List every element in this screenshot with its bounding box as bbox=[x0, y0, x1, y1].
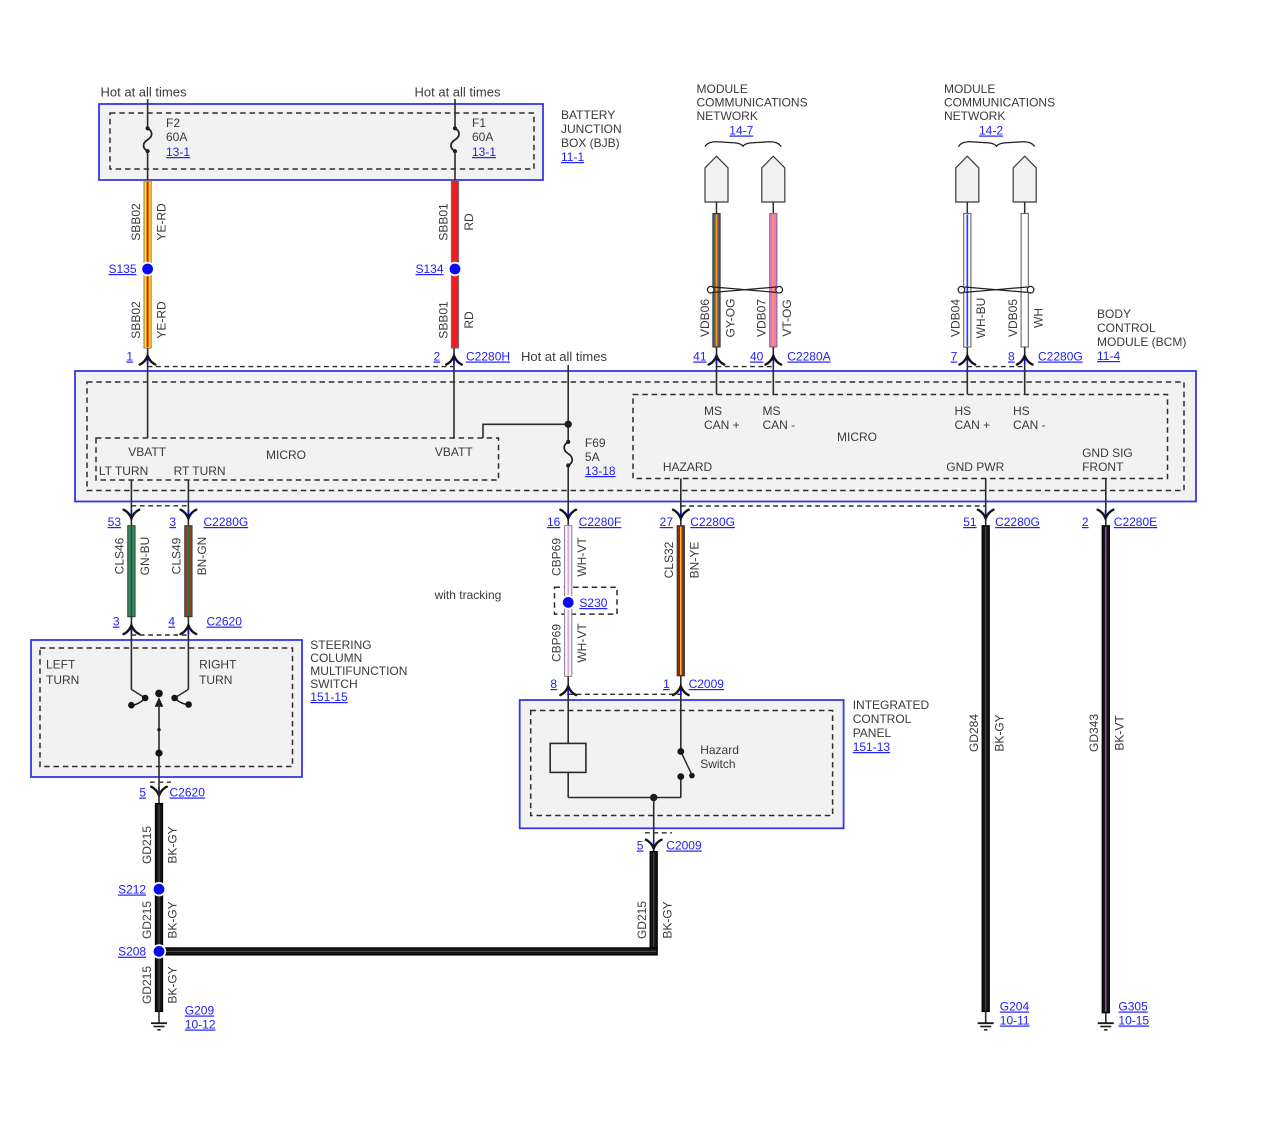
svg-text:13-1: 13-1 bbox=[166, 145, 190, 159]
svg-text:C2280G: C2280G bbox=[995, 515, 1040, 529]
svg-text:MODULE: MODULE bbox=[944, 82, 995, 96]
svg-text:C2280F: C2280F bbox=[579, 515, 622, 529]
svg-text:TURN: TURN bbox=[46, 673, 79, 687]
svg-text:5: 5 bbox=[637, 839, 644, 853]
svg-text:NETWORK: NETWORK bbox=[697, 109, 758, 123]
svg-text:VDB04: VDB04 bbox=[949, 299, 963, 337]
svg-text:BATTERY: BATTERY bbox=[561, 108, 615, 122]
svg-text:VBATT: VBATT bbox=[435, 445, 473, 459]
svg-text:GD215: GD215 bbox=[140, 826, 154, 864]
svg-text:151-13: 151-13 bbox=[853, 740, 891, 754]
svg-text:10-11: 10-11 bbox=[1000, 1014, 1030, 1028]
svg-text:11-4: 11-4 bbox=[1097, 349, 1120, 363]
svg-text:GD215: GD215 bbox=[140, 901, 154, 939]
svg-text:WH-BU: WH-BU bbox=[974, 298, 988, 339]
svg-text:VDB06: VDB06 bbox=[698, 299, 712, 337]
svg-text:BOX (BJB): BOX (BJB) bbox=[561, 136, 620, 150]
svg-text:8: 8 bbox=[550, 677, 557, 691]
svg-text:WH-VT: WH-VT bbox=[575, 623, 589, 663]
svg-text:16: 16 bbox=[547, 515, 561, 529]
svg-text:C2620: C2620 bbox=[207, 615, 243, 629]
svg-text:COMMUNICATIONS: COMMUNICATIONS bbox=[944, 96, 1055, 110]
svg-text:13-1: 13-1 bbox=[472, 145, 496, 159]
svg-text:with tracking: with tracking bbox=[434, 588, 502, 602]
svg-text:SBB02: SBB02 bbox=[129, 203, 143, 241]
svg-text:BN-YE: BN-YE bbox=[687, 542, 701, 579]
svg-text:Hazard: Hazard bbox=[700, 743, 739, 757]
svg-text:RT TURN: RT TURN bbox=[174, 464, 226, 478]
svg-text:STEERING: STEERING bbox=[310, 638, 371, 652]
svg-text:YE-RD: YE-RD bbox=[154, 301, 168, 339]
svg-text:4: 4 bbox=[168, 615, 175, 629]
svg-text:HS: HS bbox=[955, 404, 972, 418]
svg-text:14-7: 14-7 bbox=[729, 124, 753, 138]
svg-text:41: 41 bbox=[693, 350, 707, 364]
svg-text:3: 3 bbox=[113, 615, 120, 629]
svg-text:14-2: 14-2 bbox=[979, 124, 1003, 138]
svg-text:CBP69: CBP69 bbox=[550, 624, 564, 662]
svg-text:CLS49: CLS49 bbox=[170, 537, 184, 574]
svg-text:S212: S212 bbox=[118, 883, 146, 897]
svg-text:RD: RD bbox=[462, 213, 476, 231]
svg-text:5: 5 bbox=[139, 786, 146, 800]
svg-text:S135: S135 bbox=[108, 262, 136, 276]
svg-text:BODY: BODY bbox=[1097, 307, 1131, 321]
svg-text:C2280G: C2280G bbox=[1038, 350, 1083, 364]
svg-text:C2280G: C2280G bbox=[204, 515, 249, 529]
svg-text:COLUMN: COLUMN bbox=[310, 651, 362, 665]
svg-text:5A: 5A bbox=[585, 450, 600, 464]
svg-text:G204: G204 bbox=[1000, 1000, 1030, 1014]
svg-text:MS: MS bbox=[763, 404, 781, 418]
svg-text:WH-VT: WH-VT bbox=[575, 537, 589, 577]
svg-text:CONTROL: CONTROL bbox=[853, 712, 912, 726]
svg-text:Switch: Switch bbox=[700, 757, 735, 771]
svg-text:40: 40 bbox=[750, 350, 764, 364]
svg-text:GD215: GD215 bbox=[140, 966, 154, 1004]
svg-text:CBP69: CBP69 bbox=[550, 538, 564, 576]
svg-text:RD: RD bbox=[462, 311, 476, 329]
svg-text:BK-GY: BK-GY bbox=[165, 966, 179, 1003]
svg-text:PANEL: PANEL bbox=[853, 726, 892, 740]
svg-text:CLS32: CLS32 bbox=[662, 541, 676, 578]
svg-text:Hot at all times: Hot at all times bbox=[521, 349, 607, 364]
svg-text:2: 2 bbox=[434, 350, 441, 364]
svg-text:HS: HS bbox=[1013, 404, 1030, 418]
svg-text:MICRO: MICRO bbox=[266, 448, 306, 462]
svg-text:BK-GY: BK-GY bbox=[993, 714, 1007, 751]
svg-text:C2280G: C2280G bbox=[690, 515, 735, 529]
svg-text:BK-GY: BK-GY bbox=[661, 901, 675, 938]
svg-text:10-12: 10-12 bbox=[185, 1018, 216, 1032]
svg-text:F2: F2 bbox=[166, 116, 180, 130]
svg-text:NETWORK: NETWORK bbox=[944, 109, 1005, 123]
svg-text:C2280E: C2280E bbox=[1114, 515, 1157, 529]
svg-text:11-1: 11-1 bbox=[561, 150, 584, 164]
svg-text:INTEGRATED: INTEGRATED bbox=[853, 698, 930, 712]
svg-text:S208: S208 bbox=[118, 945, 146, 959]
svg-text:BK-GY: BK-GY bbox=[165, 826, 179, 863]
svg-text:VBATT: VBATT bbox=[128, 445, 166, 459]
svg-text:CAN -: CAN - bbox=[763, 418, 796, 432]
svg-text:S230: S230 bbox=[579, 596, 607, 610]
svg-text:CONTROL: CONTROL bbox=[1097, 321, 1156, 335]
svg-text:YE-RD: YE-RD bbox=[154, 203, 168, 241]
svg-text:S134: S134 bbox=[415, 262, 443, 276]
svg-text:CLS46: CLS46 bbox=[113, 537, 127, 574]
svg-text:Hot at all times: Hot at all times bbox=[415, 85, 501, 100]
svg-text:1: 1 bbox=[663, 677, 670, 691]
svg-text:VT-OG: VT-OG bbox=[780, 299, 794, 336]
svg-text:C2280A: C2280A bbox=[787, 350, 830, 364]
svg-text:BN-GN: BN-GN bbox=[195, 537, 209, 576]
svg-text:TURN: TURN bbox=[199, 673, 232, 687]
svg-text:VDB07: VDB07 bbox=[755, 299, 769, 337]
svg-text:JUNCTION: JUNCTION bbox=[561, 122, 622, 136]
svg-text:GND SIG: GND SIG bbox=[1082, 446, 1133, 460]
svg-text:7: 7 bbox=[951, 350, 958, 364]
svg-text:CAN +: CAN + bbox=[704, 418, 740, 432]
svg-text:LEFT: LEFT bbox=[46, 657, 76, 671]
svg-text:60A: 60A bbox=[166, 130, 187, 144]
svg-text:SBB02: SBB02 bbox=[129, 301, 143, 339]
svg-text:13-18: 13-18 bbox=[585, 464, 616, 478]
svg-text:CAN -: CAN - bbox=[1013, 418, 1046, 432]
svg-text:CAN +: CAN + bbox=[955, 418, 991, 432]
svg-text:C2280H: C2280H bbox=[466, 350, 510, 364]
svg-text:SBB01: SBB01 bbox=[436, 301, 450, 339]
svg-text:GN-BU: GN-BU bbox=[138, 537, 152, 576]
svg-text:FRONT: FRONT bbox=[1082, 460, 1124, 474]
svg-text:C2009: C2009 bbox=[666, 839, 702, 853]
svg-text:RIGHT: RIGHT bbox=[199, 657, 237, 671]
svg-text:Hot at all times: Hot at all times bbox=[101, 85, 187, 100]
svg-text:51: 51 bbox=[963, 515, 977, 529]
svg-text:GD215: GD215 bbox=[635, 901, 649, 939]
svg-text:WH: WH bbox=[1032, 308, 1046, 328]
svg-text:SWITCH: SWITCH bbox=[310, 677, 357, 691]
svg-text:2: 2 bbox=[1082, 515, 1089, 529]
svg-text:SBB01: SBB01 bbox=[436, 203, 450, 241]
svg-text:MODULE: MODULE bbox=[697, 82, 748, 96]
svg-text:C2620: C2620 bbox=[170, 786, 206, 800]
svg-text:27: 27 bbox=[660, 515, 674, 529]
svg-text:BK-VT: BK-VT bbox=[1113, 715, 1127, 751]
svg-text:60A: 60A bbox=[472, 130, 493, 144]
svg-text:GD343: GD343 bbox=[1087, 714, 1101, 752]
svg-text:BK-GY: BK-GY bbox=[165, 901, 179, 938]
svg-text:HAZARD: HAZARD bbox=[663, 460, 713, 474]
svg-text:VDB05: VDB05 bbox=[1006, 299, 1020, 337]
svg-text:8: 8 bbox=[1008, 350, 1015, 364]
svg-text:MICRO: MICRO bbox=[837, 430, 877, 444]
svg-text:LT TURN: LT TURN bbox=[99, 464, 148, 478]
svg-text:G209: G209 bbox=[185, 1004, 215, 1018]
svg-text:MODULE (BCM): MODULE (BCM) bbox=[1097, 335, 1186, 349]
svg-text:COMMUNICATIONS: COMMUNICATIONS bbox=[697, 96, 808, 110]
svg-text:C2009: C2009 bbox=[689, 677, 725, 691]
svg-text:151-15: 151-15 bbox=[310, 690, 348, 704]
svg-text:G305: G305 bbox=[1118, 1000, 1148, 1014]
svg-text:F69: F69 bbox=[585, 436, 606, 450]
svg-text:10-15: 10-15 bbox=[1118, 1014, 1149, 1028]
svg-text:1: 1 bbox=[126, 350, 133, 364]
svg-text:GY-OG: GY-OG bbox=[723, 299, 737, 338]
svg-text:53: 53 bbox=[108, 515, 122, 529]
svg-text:MS: MS bbox=[704, 404, 722, 418]
svg-text:GND PWR: GND PWR bbox=[946, 460, 1004, 474]
svg-text:GD284: GD284 bbox=[967, 714, 981, 752]
svg-text:3: 3 bbox=[169, 515, 176, 529]
svg-text:MULTIFUNCTION: MULTIFUNCTION bbox=[310, 664, 407, 678]
svg-text:F1: F1 bbox=[472, 116, 486, 130]
